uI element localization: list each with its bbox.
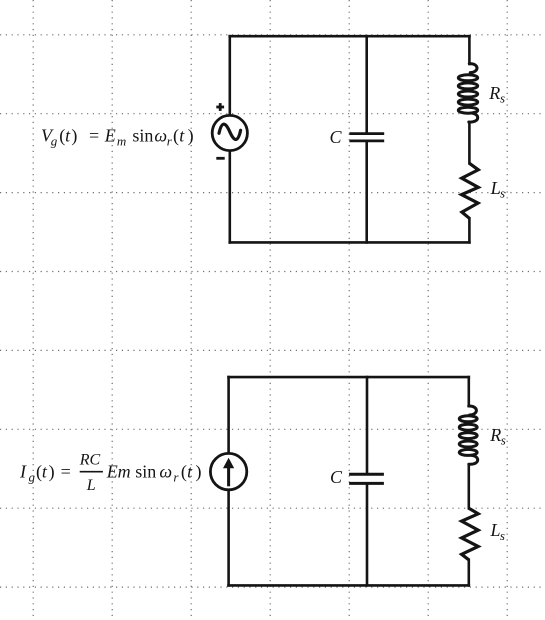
svg-text:=: =: [89, 125, 99, 145]
minus sign: [216, 157, 224, 160]
svg-text:E: E: [104, 125, 116, 145]
wire right below resistor: [467, 560, 470, 586]
inductor coil (labelled Rs, top circuit): [458, 64, 477, 122]
wire right below resistor: [468, 218, 471, 242]
formula Vg(t) = Em sin wr(t): [41, 125, 194, 148]
svg-text:s: s: [500, 528, 505, 543]
svg-text:ω: ω: [154, 125, 167, 145]
svg-text:RC: RC: [79, 452, 101, 469]
wire left above source: [227, 377, 230, 453]
svg-text:s: s: [501, 433, 506, 448]
resistor zigzag (labelled Ls, top circuit): [462, 163, 479, 218]
svg-text:R: R: [488, 83, 500, 103]
svg-text:m: m: [117, 133, 126, 148]
svg-text:): ): [49, 461, 55, 482]
capacitor C (top circuit): [349, 134, 384, 141]
wire top (node between source and C and Rs branch): [230, 35, 470, 38]
svg-text:ω: ω: [159, 461, 172, 481]
svg-text:L: L: [490, 178, 501, 198]
wire bottom: [230, 241, 470, 244]
current source Ig circle: [210, 453, 246, 489]
wire left below source: [227, 490, 230, 585]
svg-text:I: I: [19, 461, 27, 481]
svg-text:): ): [71, 125, 77, 146]
resistor zigzag (labelled Ls, bottom circuit): [462, 508, 479, 560]
wire right between inductor and resistor: [468, 123, 471, 164]
svg-text:s: s: [500, 186, 505, 201]
svg-text:Em: Em: [106, 461, 131, 481]
voltage source sine symbol: [219, 124, 241, 139]
wire top: [229, 376, 469, 379]
plus sign: [216, 103, 224, 111]
wire bottom: [229, 584, 469, 587]
svg-text:C: C: [330, 127, 343, 147]
svg-text:g: g: [51, 133, 58, 148]
svg-text:): ): [196, 461, 202, 482]
svg-text:=: =: [61, 461, 71, 481]
wire middle below capacitor: [366, 485, 369, 586]
wire left below source: [229, 151, 232, 243]
svg-text:(: (: [173, 125, 179, 146]
svg-text:sin: sin: [132, 125, 153, 145]
svg-text:): ): [188, 125, 194, 146]
svg-text:g: g: [29, 469, 36, 484]
svg-text:s: s: [500, 91, 505, 106]
inductor coil (labelled Rs, bottom circuit): [459, 406, 477, 464]
wire middle below capacitor: [365, 142, 368, 242]
formula Ig(t) = RC/L Em sin wr(t): [19, 452, 202, 494]
wire right above inductor: [468, 36, 471, 64]
svg-text:(: (: [181, 461, 187, 482]
voltage source Vg circle: [212, 115, 247, 150]
wire right between inductor and resistor: [467, 465, 470, 509]
current source arrow: [227, 467, 230, 487]
svg-text:C: C: [330, 467, 343, 487]
svg-text:L: L: [86, 477, 96, 494]
wire middle above capacitor: [366, 377, 369, 473]
svg-text:L: L: [490, 520, 501, 540]
wire left above source: [229, 36, 232, 115]
wire right above inductor: [467, 377, 470, 406]
capacitor C (bottom circuit): [349, 474, 384, 483]
svg-text:R: R: [489, 425, 501, 445]
wire middle above capacitor: [365, 36, 368, 132]
svg-text:sin: sin: [135, 461, 156, 481]
